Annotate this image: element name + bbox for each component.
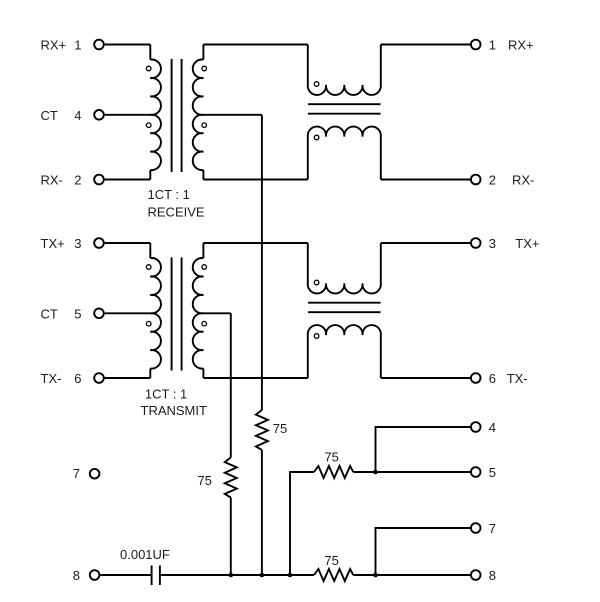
T2 transformer secondary winding upper half	[193, 258, 204, 313]
svg-text:3: 3	[74, 236, 81, 251]
wire branch up to pin 7	[376, 528, 471, 575]
svg-text:4: 4	[489, 420, 496, 435]
phase dot choke bottom	[314, 135, 319, 140]
terminal left pin 3	[94, 238, 104, 248]
terminal right pin 7	[471, 523, 481, 533]
T1 transformer primary winding upper half	[150, 59, 161, 114]
phase dot choke top	[314, 82, 319, 87]
phase dot primary upper	[146, 265, 151, 270]
wire choke top-right vertical	[380, 45, 382, 86]
svg-text:RECEIVE: RECEIVE	[148, 204, 205, 219]
wire secondary bottom to choke	[203, 377, 307, 379]
wire choke top to right pin	[381, 44, 470, 46]
wire primary bottom exit	[149, 170, 151, 180]
wire R2 to ground bus	[230, 498, 232, 576]
T2 transformer core	[172, 257, 182, 370]
svg-text:7: 7	[489, 521, 496, 536]
svg-text:75: 75	[198, 473, 212, 488]
terminal left pin 4	[94, 110, 104, 120]
svg-text:CT: CT	[41, 108, 58, 123]
wire choke bottom to right pin	[381, 377, 470, 379]
resistor R2 75 (vertical)	[225, 458, 237, 498]
phase dot primary upper	[146, 66, 151, 71]
wire left pin 6 lead	[105, 377, 151, 379]
wire choke top-left vertical	[307, 243, 309, 284]
svg-text:75: 75	[324, 553, 338, 568]
wire secondary bottom to choke	[203, 179, 307, 181]
junction riser/bus	[288, 573, 293, 578]
wire secondary bottom exit	[202, 369, 204, 379]
terminal left pin 7 (n/c)	[90, 469, 100, 479]
T1 transformer secondary winding upper half	[193, 59, 204, 114]
phase dot secondary upper	[202, 66, 207, 71]
wire pin-row-top left vertical entry (T1)	[149, 45, 151, 60]
wire primary bottom exit	[149, 369, 151, 379]
wire secondary top to choke	[203, 44, 307, 46]
svg-text:3: 3	[489, 236, 496, 251]
T1 common-mode choke bottom winding	[308, 127, 381, 137]
svg-text:TX-: TX-	[507, 371, 528, 386]
phase dot primary lower	[146, 123, 151, 128]
wire secondary bottom exit	[202, 170, 204, 180]
svg-text:75: 75	[324, 450, 338, 465]
wire secondary top exit	[202, 45, 204, 60]
wire branch up to pin 4	[376, 427, 471, 472]
wire left pin 2 lead	[105, 179, 151, 181]
wire R1 to ground bus	[261, 450, 263, 575]
svg-text:TRANSMIT: TRANSMIT	[141, 403, 208, 418]
terminal right pin 3	[471, 238, 481, 248]
T1 transformer secondary winding lower half	[193, 115, 204, 170]
T2 choke core	[308, 303, 381, 313]
wire choke bottom-left vertical	[307, 137, 309, 180]
capacitor C1 0.001UF left lead	[100, 574, 151, 576]
svg-text:6: 6	[489, 371, 496, 386]
T2 common-mode choke top winding	[308, 284, 381, 294]
svg-text:RX+: RX+	[508, 38, 534, 53]
svg-text:7: 7	[73, 466, 80, 481]
terminal right pin 5	[471, 467, 481, 477]
svg-text:5: 5	[489, 465, 496, 480]
junction R1/bus	[260, 573, 265, 578]
wire riser from bus to R3 row	[290, 472, 314, 575]
terminal right pin 6	[471, 373, 481, 383]
svg-text:0.001UF: 0.001UF	[120, 547, 170, 562]
junction R2/bus	[229, 573, 234, 578]
T2 transformer primary winding lower half	[150, 313, 161, 368]
wire bus to pin 8	[353, 574, 470, 576]
wire R3 to pin 5	[353, 471, 470, 473]
terminal left pin 8	[90, 570, 100, 580]
wire left pin 5 lead	[105, 312, 151, 314]
svg-text:2: 2	[74, 173, 81, 188]
svg-text:CT: CT	[41, 306, 58, 321]
svg-text:2: 2	[489, 173, 496, 188]
T2 transformer primary winding upper half	[150, 258, 161, 313]
wire vertical from T2 CT down to R2	[230, 313, 232, 457]
terminal right pin 2	[471, 175, 481, 185]
svg-text:8: 8	[489, 568, 496, 583]
wire pin-row-top left vertical entry (T2)	[149, 243, 151, 258]
wire left pin 4 lead	[105, 114, 151, 116]
phase dot secondary lower	[202, 123, 207, 128]
phase dot choke bottom	[314, 334, 319, 339]
resistor R4 75 (horizontal, in bus)	[314, 569, 353, 581]
svg-text:TX-: TX-	[41, 371, 62, 386]
svg-text:8: 8	[73, 568, 80, 583]
junction node row8	[373, 573, 378, 578]
T2 common-mode choke bottom winding	[308, 325, 381, 335]
svg-text:6: 6	[74, 371, 81, 386]
wire left pin 3 lead	[105, 242, 151, 244]
svg-text:RX-: RX-	[512, 173, 534, 188]
T1 transformer primary winding lower half	[150, 115, 161, 170]
wire choke top to right pin	[381, 242, 470, 244]
wire T1 secondary center tap	[203, 114, 262, 116]
terminal left pin 1	[94, 40, 104, 50]
terminal right pin 4	[471, 422, 481, 432]
resistor R1 75 (vertical)	[256, 410, 268, 450]
svg-text:RX-: RX-	[41, 173, 63, 188]
phase dot choke top	[314, 280, 319, 285]
phase dot secondary upper	[202, 265, 207, 270]
svg-text:1CT : 1: 1CT : 1	[148, 187, 190, 202]
svg-text:TX+: TX+	[515, 236, 539, 251]
svg-text:1: 1	[489, 38, 496, 53]
wire choke bottom-right vertical	[380, 137, 382, 180]
terminal right pin 1	[471, 40, 481, 50]
T2 transformer secondary winding lower half	[193, 313, 204, 368]
T1 common-mode choke top winding	[308, 85, 381, 95]
phase dot primary lower	[146, 321, 151, 326]
svg-text:1CT : 1: 1CT : 1	[145, 387, 187, 402]
wire secondary top exit	[202, 243, 204, 258]
svg-text:TX+: TX+	[41, 236, 65, 251]
wire choke bottom to right pin	[381, 179, 470, 181]
wire vertical from T1 CT down to R1	[261, 115, 263, 410]
wire choke top-left vertical	[307, 45, 309, 86]
capacitor C1 plates	[152, 566, 160, 586]
phase dot secondary lower	[202, 321, 207, 326]
wire T2 secondary center tap	[203, 312, 230, 314]
wire left pin 1 lead	[105, 44, 151, 46]
terminal left pin 5	[94, 309, 104, 319]
terminal left pin 2	[94, 175, 104, 185]
junction node row5	[373, 470, 378, 475]
svg-text:4: 4	[74, 108, 81, 123]
T1 transformer core	[172, 59, 182, 172]
svg-text:1: 1	[74, 38, 81, 53]
wire choke top-right vertical	[380, 243, 382, 284]
svg-text:RX+: RX+	[41, 38, 67, 53]
T1 choke core	[308, 104, 381, 114]
wire choke bottom-right vertical	[380, 335, 382, 378]
wire ground bus	[160, 574, 314, 576]
svg-text:75: 75	[273, 421, 287, 436]
wire choke bottom-left vertical	[307, 335, 309, 378]
wire secondary top to choke	[203, 242, 307, 244]
svg-text:5: 5	[74, 306, 81, 321]
terminal right pin 8	[471, 570, 481, 580]
resistor R3 75 (horizontal)	[314, 466, 353, 478]
terminal left pin 6	[94, 373, 104, 383]
